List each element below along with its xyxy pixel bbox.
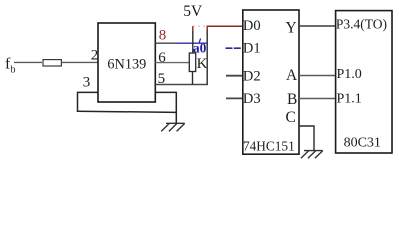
svg-text:8: 8 bbox=[159, 28, 167, 44]
svg-text:D2: D2 bbox=[243, 68, 261, 84]
svg-text:B: B bbox=[287, 91, 297, 108]
multiplexer U2 74HC151 box bbox=[243, 10, 299, 154]
wire D3 stub bbox=[226, 97, 243, 99]
optocoupler U1 6N139 box bbox=[98, 23, 155, 102]
faint 5V rail red bbox=[193, 25, 207, 27]
svg-text:6: 6 bbox=[158, 50, 166, 66]
svg-text:P1.0: P1.0 bbox=[337, 67, 362, 82]
svg-text:80C31: 80C31 bbox=[344, 135, 381, 150]
svg-text:Y: Y bbox=[286, 19, 297, 36]
wire pin 6 bbox=[155, 62, 189, 64]
svg-text:K: K bbox=[197, 56, 208, 72]
resistor R1 (series input resistor) bbox=[43, 60, 61, 66]
svg-text:74HC151: 74HC151 bbox=[243, 138, 295, 153]
wire vertical 5V to resistor K bbox=[192, 31, 194, 54]
svg-text:D3: D3 bbox=[243, 91, 261, 107]
wire pin3 loop bottom bbox=[77, 111, 177, 112]
wire U1 right edge to ground stem bbox=[155, 91, 176, 93]
wire pin 5 bbox=[155, 84, 208, 86]
wire fb to resistor R1 bbox=[14, 61, 42, 63]
svg-text:P1.1: P1.1 bbox=[337, 91, 362, 106]
wire pin3 vertical bbox=[77, 92, 79, 112]
wire D2 stub bbox=[226, 75, 243, 77]
wire C to ground bbox=[299, 126, 314, 151]
wire D1 stub (blue dashes) bbox=[226, 47, 243, 49]
wire pin 8 (blue net) bbox=[155, 42, 177, 44]
svg-text:C: C bbox=[286, 109, 296, 126]
wire pin 3 of U1 bbox=[78, 91, 99, 93]
wire A to P1.0 bbox=[299, 75, 336, 77]
wire 5V stub (red tip) bbox=[192, 26, 194, 31]
wire D0 (red) bbox=[207, 25, 243, 27]
svg-text:2: 2 bbox=[91, 47, 99, 63]
wire resistor K bottom stem bbox=[192, 72, 194, 85]
resistor K (pull-up) bbox=[189, 53, 195, 72]
svg-text:3: 3 bbox=[83, 75, 91, 91]
svg-text:6N139: 6N139 bbox=[107, 56, 146, 72]
svg-text:b: b bbox=[11, 65, 16, 76]
microcontroller U3 80C31 box bbox=[336, 11, 392, 153]
wire vertical D0 net (red top) bbox=[206, 26, 208, 31]
ground G2 bbox=[301, 151, 323, 159]
ground G1 bbox=[161, 123, 185, 131]
svg-text:D1: D1 bbox=[243, 41, 261, 57]
wire resistor R1 to pin 2 of U1 bbox=[61, 61, 98, 63]
wire B to P1.1 bbox=[299, 98, 336, 100]
wire ground stem vertical bbox=[175, 92, 177, 124]
svg-text:5V: 5V bbox=[183, 3, 203, 20]
svg-text:A: A bbox=[286, 67, 298, 84]
svg-text:D0: D0 bbox=[243, 18, 261, 34]
svg-text:P3.4(TO): P3.4(TO) bbox=[336, 17, 387, 32]
wire Y to P3.4 bbox=[299, 25, 336, 27]
net label tick bbox=[199, 39, 200, 43]
